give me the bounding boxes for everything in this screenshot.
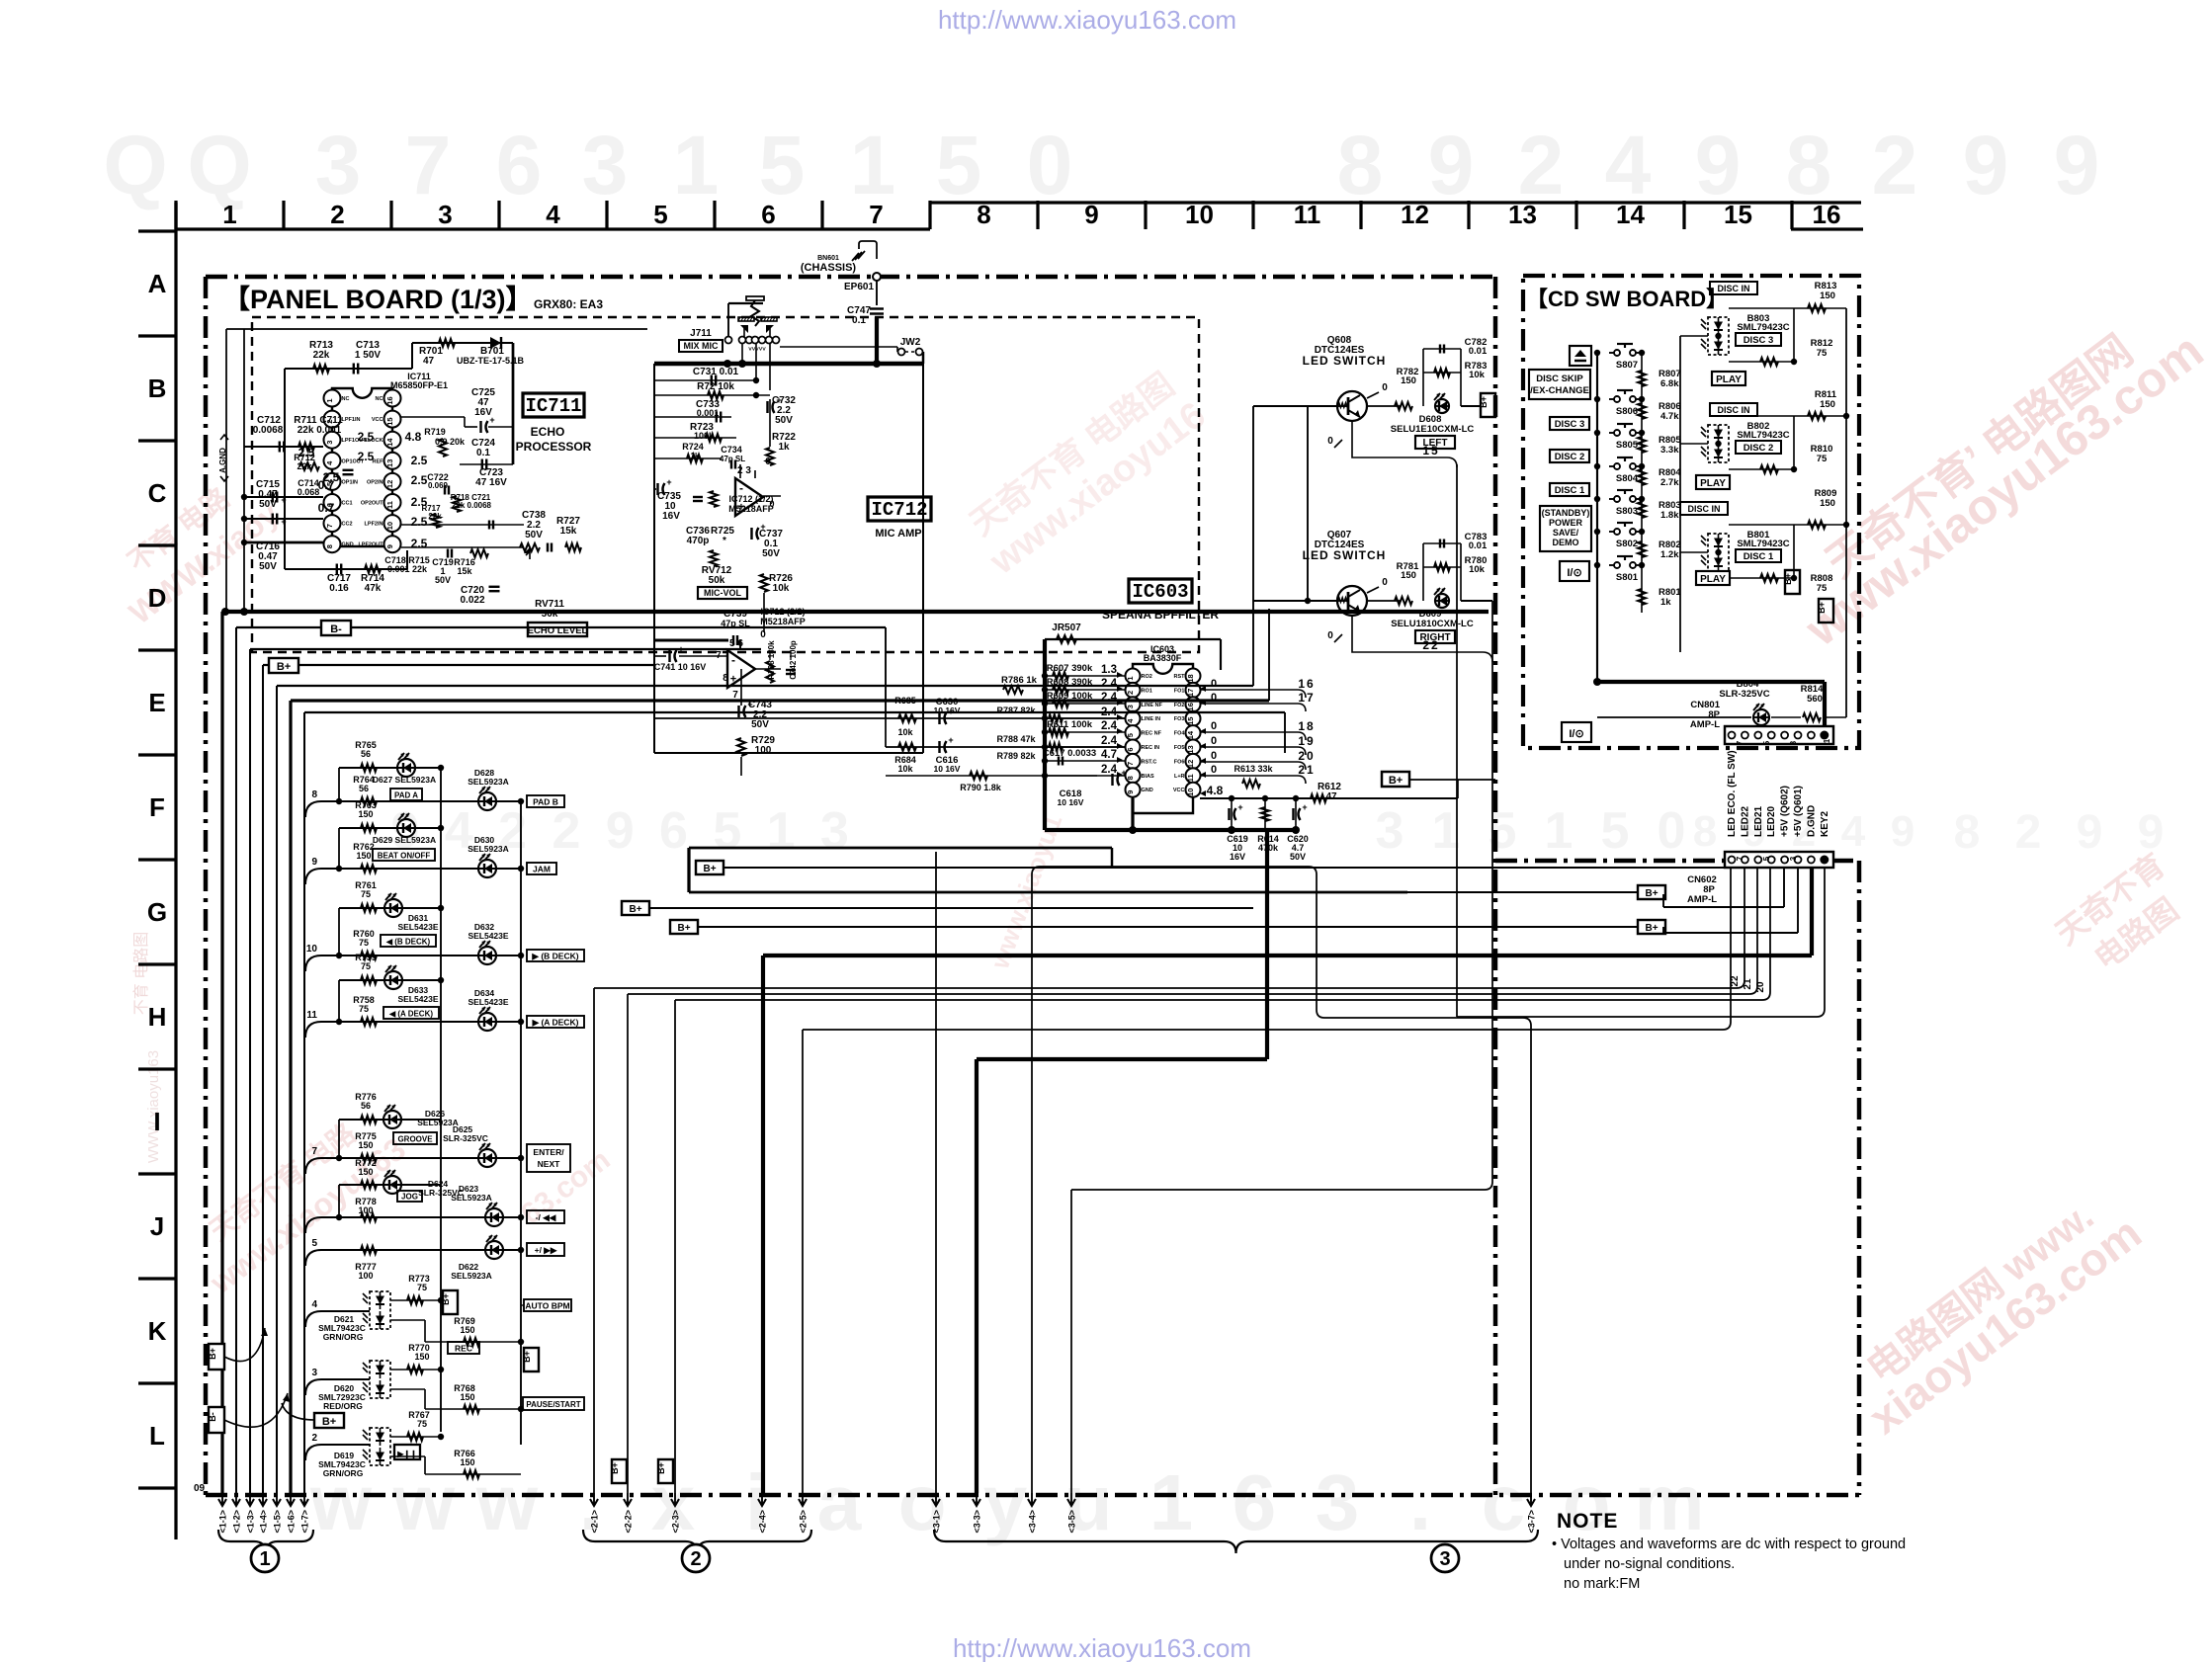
- svg-text:470p: 470p: [687, 536, 710, 546]
- svg-text:S801: S801: [1616, 572, 1639, 583]
- svg-text:2.5: 2.5: [358, 430, 375, 444]
- svg-text:+5V (Q601): +5V (Q601): [1793, 786, 1804, 837]
- svg-text:22: 22: [1422, 638, 1439, 652]
- svg-text:I/⊙: I/⊙: [1567, 567, 1581, 579]
- svg-text:63.com: 63.com: [515, 1143, 616, 1231]
- svg-text:0: 0: [1211, 764, 1217, 776]
- svg-text:150: 150: [460, 1325, 474, 1335]
- svg-text:0: 0: [1027, 119, 1073, 211]
- svg-text:B+: B+: [1645, 923, 1658, 934]
- svg-text:20: 20: [1755, 981, 1766, 993]
- svg-text:150: 150: [1820, 291, 1835, 301]
- svg-text:0: 0: [1327, 436, 1333, 447]
- svg-text:3: 3: [438, 200, 452, 229]
- svg-text:+: +: [948, 735, 953, 745]
- svg-text:150: 150: [460, 1392, 474, 1402]
- svg-text:SLR-325VC: SLR-325VC: [443, 1133, 488, 1143]
- svg-text:3: 3: [1789, 856, 1798, 861]
- svg-text:+/ ▶▶: +/ ▶▶: [535, 1245, 558, 1255]
- svg-text:FO5: FO5: [1174, 745, 1185, 751]
- svg-text:OP2OUT: OP2OUT: [361, 501, 383, 507]
- svg-text:SEL5923A: SEL5923A: [468, 777, 509, 787]
- svg-text:<1-2>: <1-2>: [232, 1510, 242, 1534]
- svg-text:19: 19: [1298, 734, 1315, 748]
- svg-text:0.001 22k: 0.001 22k: [387, 564, 428, 574]
- svg-text:18: 18: [1298, 719, 1315, 733]
- svg-text:56: 56: [359, 784, 369, 793]
- svg-text:75: 75: [361, 889, 371, 899]
- svg-text:15: 15: [385, 417, 394, 425]
- svg-text:0.16: 0.16: [329, 583, 349, 594]
- svg-text:17: 17: [1298, 691, 1315, 705]
- svg-text:2: 2: [552, 802, 580, 860]
- svg-text:0: 0: [1211, 678, 1217, 690]
- svg-text:IC712 (1/2): IC712 (1/2): [728, 494, 773, 504]
- svg-text:0: 0: [765, 457, 771, 467]
- svg-text:4.7k: 4.7k: [1660, 411, 1679, 422]
- svg-text:SLR-325VC: SLR-325VC: [1719, 689, 1769, 700]
- svg-text:LED SWITCH: LED SWITCH: [1303, 548, 1387, 562]
- svg-text:4: 4: [1605, 119, 1652, 211]
- svg-text:6: 6: [1126, 747, 1135, 751]
- svg-text:C731 0.01: C731 0.01: [693, 367, 739, 377]
- svg-text:5: 5: [1762, 856, 1771, 861]
- svg-text:RST.C: RST.C: [1142, 759, 1157, 765]
- svg-text:10: 10: [306, 944, 318, 955]
- svg-text:4: 4: [1841, 807, 1866, 856]
- svg-text:K: K: [148, 1316, 167, 1346]
- svg-text:560: 560: [1807, 694, 1823, 705]
- svg-text:<2-1>: <2-1>: [590, 1510, 600, 1534]
- svg-text:3: 3: [325, 441, 334, 445]
- svg-text:1: 1: [767, 802, 796, 860]
- svg-text:MIC-VOL: MIC-VOL: [704, 588, 741, 598]
- svg-text:under no-signal conditions.: under no-signal conditions.: [1564, 1556, 1735, 1572]
- svg-text:I/⊙: I/⊙: [1569, 728, 1583, 740]
- svg-text:D: D: [148, 583, 167, 613]
- svg-text:2.5: 2.5: [358, 450, 375, 463]
- svg-text:2.5: 2.5: [323, 470, 340, 484]
- svg-text:(CHASSIS): (CHASSIS): [801, 262, 857, 274]
- svg-text:22k 0.001: 22k 0.001: [298, 425, 342, 436]
- svg-text:12: 12: [1186, 760, 1195, 768]
- svg-text:0: 0: [1211, 720, 1217, 732]
- svg-text:LINE IN: LINE IN: [1142, 716, 1161, 722]
- svg-text:R787 82k: R787 82k: [996, 706, 1036, 715]
- svg-text:9: 9: [2077, 806, 2103, 859]
- svg-text:0.1: 0.1: [476, 448, 490, 458]
- svg-text:1.8k: 1.8k: [1660, 510, 1679, 521]
- svg-text:GRN/ORG: GRN/ORG: [323, 1332, 364, 1342]
- svg-text:<3-4>: <3-4>: [1028, 1510, 1038, 1534]
- svg-text:9: 9: [385, 544, 394, 548]
- svg-text:C734: C734: [721, 445, 742, 455]
- svg-text:RED/ORG: RED/ORG: [323, 1401, 363, 1411]
- svg-text:▶❙❙: ▶❙❙: [396, 1450, 417, 1459]
- svg-text:LED SWITCH: LED SWITCH: [1303, 354, 1387, 368]
- svg-text:LINE NF: LINE NF: [1142, 703, 1163, 708]
- svg-text:KEY2: KEY2: [1820, 810, 1830, 837]
- svg-text:10: 10: [1185, 200, 1214, 229]
- svg-text:A: A: [148, 269, 167, 298]
- svg-text:M65850FP-E1: M65850FP-E1: [390, 380, 448, 390]
- svg-text:1: 1: [673, 119, 720, 211]
- svg-text:3: 3: [1789, 740, 1798, 745]
- svg-text:13: 13: [1186, 745, 1195, 753]
- svg-text:3.3k: 3.3k: [1660, 445, 1679, 456]
- svg-text:L+R: L+R: [1174, 774, 1185, 780]
- svg-text:NC: NC: [342, 396, 350, 402]
- svg-text:47k: 47k: [365, 583, 382, 594]
- svg-text:B+: B+: [610, 1462, 620, 1474]
- svg-text:100k: 100k: [694, 431, 715, 441]
- svg-text:75: 75: [417, 1283, 427, 1292]
- svg-text:8: 8: [1693, 807, 1717, 856]
- svg-text:75: 75: [1817, 454, 1828, 464]
- svg-text:5: 5: [759, 119, 806, 211]
- svg-text:9: 9: [606, 802, 635, 860]
- svg-text:100: 100: [755, 745, 772, 756]
- svg-text:BN601: BN601: [817, 255, 839, 262]
- svg-text:5 6: 5 6: [729, 638, 743, 649]
- svg-text:1: 1: [259, 1548, 270, 1570]
- svg-text:m: m: [1634, 1458, 1704, 1546]
- svg-text:5: 5: [1762, 740, 1771, 745]
- svg-text:2: 2: [330, 200, 344, 229]
- svg-text:3: 3: [311, 1368, 317, 1378]
- svg-text:http://www.xiaoyu163.com: http://www.xiaoyu163.com: [938, 5, 1236, 35]
- svg-text:AMP-L: AMP-L: [1690, 719, 1720, 730]
- svg-text:0.01: 0.01: [1469, 540, 1488, 551]
- svg-text:21: 21: [1743, 978, 1753, 990]
- svg-text:8: 8: [1337, 119, 1384, 211]
- svg-text:y: y: [983, 1458, 1028, 1546]
- svg-text:R724: R724: [682, 442, 704, 452]
- svg-text:18: 18: [1186, 674, 1195, 682]
- svg-text:JAM: JAM: [533, 865, 551, 874]
- svg-text:R790 1.8k: R790 1.8k: [960, 783, 1002, 792]
- svg-text:0.069: 0.069: [428, 481, 449, 490]
- svg-text:150: 150: [358, 1140, 373, 1150]
- svg-text:2.7k: 2.7k: [1660, 477, 1679, 488]
- svg-text:22k 0.0068: 22k 0.0068: [452, 501, 492, 510]
- svg-text:7: 7: [869, 200, 883, 229]
- svg-text:REC: REC: [455, 1344, 472, 1354]
- svg-text:-: -: [731, 653, 735, 667]
- svg-text:<3-3>: <3-3>: [973, 1510, 982, 1534]
- svg-text:2.4: 2.4: [1101, 735, 1118, 747]
- svg-text:3: 3: [1376, 802, 1404, 860]
- svg-text:˅˅˅˅˅: ˅˅˅˅˅: [748, 347, 766, 353]
- svg-text:10k: 10k: [897, 727, 913, 737]
- svg-text:B: B: [148, 374, 167, 403]
- svg-text:2: 2: [311, 1433, 317, 1444]
- svg-text:FO2: FO2: [1174, 703, 1185, 708]
- svg-text:OP1IN: OP1IN: [342, 479, 359, 485]
- svg-text:AMP-L: AMP-L: [1687, 894, 1717, 905]
- svg-text:0: 0: [1327, 630, 1333, 641]
- svg-text:0: 0: [1382, 577, 1388, 588]
- svg-text:NC: NC: [376, 396, 383, 402]
- svg-text:-: -: [739, 481, 743, 495]
- svg-text:DISC 3: DISC 3: [1555, 419, 1585, 430]
- svg-text:5: 5: [1126, 733, 1135, 737]
- svg-text:1: 1: [1821, 856, 1829, 861]
- svg-text:JW2: JW2: [900, 337, 921, 348]
- svg-text:B+: B+: [277, 661, 291, 673]
- svg-text:◀ (A DECK): ◀ (A DECK): [388, 1010, 433, 1019]
- svg-text:B+: B+: [1479, 396, 1489, 408]
- svg-text:D629 SEL5923A: D629 SEL5923A: [373, 835, 436, 845]
- svg-text:14: 14: [385, 438, 394, 447]
- svg-text:PROCESSOR: PROCESSOR: [516, 440, 592, 454]
- svg-text:75: 75: [361, 961, 371, 971]
- svg-text:JR507: JR507: [1052, 623, 1081, 633]
- svg-text:B+: B+: [208, 1348, 217, 1360]
- svg-text:1k: 1k: [691, 452, 700, 460]
- svg-text:LED ECO. (FL SW): LED ECO. (FL SW): [1727, 750, 1738, 837]
- svg-text:SML79423C: SML79423C: [1737, 430, 1789, 441]
- svg-text:10k: 10k: [897, 764, 913, 774]
- svg-text:21: 21: [1298, 763, 1315, 777]
- svg-text:/EX-CHANGE: /EX-CHANGE: [1530, 385, 1589, 396]
- svg-text:S806: S806: [1616, 406, 1638, 417]
- svg-text:DISC 2: DISC 2: [1744, 443, 1774, 454]
- svg-text:o: o: [1563, 1458, 1611, 1546]
- svg-text:3: 3: [1316, 1458, 1360, 1546]
- svg-text:SEL5923A: SEL5923A: [451, 1271, 492, 1281]
- svg-text:SEL5923A: SEL5923A: [468, 844, 509, 854]
- svg-text:B+: B+: [677, 923, 690, 934]
- svg-text:3: 3: [1439, 1548, 1450, 1570]
- svg-text:IC712: IC712: [871, 499, 927, 521]
- svg-text:50V: 50V: [259, 499, 277, 510]
- svg-text:2.5: 2.5: [298, 446, 315, 459]
- svg-text:0: 0: [1658, 802, 1686, 860]
- svg-text:C: C: [148, 478, 167, 508]
- svg-text:50V: 50V: [435, 575, 451, 585]
- svg-text:SELU1E10CXM-LC: SELU1E10CXM-LC: [1391, 424, 1475, 435]
- svg-text:10k: 10k: [1469, 370, 1486, 380]
- svg-text:SEL5423E: SEL5423E: [397, 994, 438, 1004]
- svg-text:R788 47k: R788 47k: [996, 734, 1036, 744]
- svg-text:Q: Q: [103, 119, 167, 211]
- svg-text:9: 9: [1126, 790, 1135, 794]
- svg-text:15k: 15k: [457, 566, 472, 576]
- svg-text:SEL5423E: SEL5423E: [397, 922, 438, 932]
- svg-text:2: 2: [690, 1548, 701, 1570]
- svg-text:0.001: 0.001: [697, 408, 720, 418]
- svg-text:6: 6: [761, 200, 775, 229]
- svg-text:.: .: [1409, 1458, 1431, 1546]
- svg-text:R613 33k: R613 33k: [1234, 764, 1273, 774]
- svg-text:2: 2: [1518, 119, 1565, 211]
- svg-text:+: +: [1237, 802, 1242, 812]
- svg-text:11: 11: [1186, 774, 1195, 782]
- svg-text:8: 8: [1126, 776, 1135, 780]
- svg-text:50k: 50k: [709, 575, 725, 586]
- svg-text:100: 100: [358, 1271, 373, 1281]
- svg-text:6: 6: [496, 119, 543, 211]
- svg-text:SML79423C: SML79423C: [1737, 539, 1789, 549]
- svg-text:22k: 22k: [428, 512, 442, 521]
- svg-text:7: 7: [1126, 762, 1135, 766]
- svg-text:5: 5: [653, 200, 667, 229]
- svg-text:SEL5423E: SEL5423E: [468, 997, 508, 1007]
- svg-text:SAVE/: SAVE/: [1553, 528, 1579, 538]
- svg-text:B+: B+: [1389, 775, 1403, 787]
- svg-text:C741 10 16V: C741 10 16V: [654, 662, 707, 672]
- svg-text:M5218AFP: M5218AFP: [728, 504, 774, 514]
- svg-text:+: +: [1302, 802, 1307, 812]
- svg-text:B+: B+: [322, 1416, 336, 1428]
- svg-text:DISC 1: DISC 1: [1555, 485, 1585, 496]
- svg-text:FO4: FO4: [1174, 731, 1186, 737]
- svg-text:DISC 1: DISC 1: [1744, 551, 1774, 562]
- svg-text:2.5: 2.5: [411, 537, 428, 550]
- svg-text:50V: 50V: [762, 548, 780, 559]
- svg-text:10 16V: 10 16V: [934, 706, 961, 715]
- svg-text:RST: RST: [1174, 674, 1186, 680]
- svg-text:+: +: [281, 495, 286, 505]
- svg-text:S805: S805: [1616, 440, 1639, 451]
- svg-text:4.7: 4.7: [1101, 749, 1117, 761]
- svg-text:0.1: 0.1: [852, 315, 866, 326]
- svg-text:15k: 15k: [560, 526, 577, 537]
- svg-text:<1-4>: <1-4>: [259, 1510, 269, 1534]
- svg-text:B-: B-: [330, 623, 342, 635]
- svg-text:B+: B+: [522, 1351, 532, 1363]
- svg-text:2: 2: [1126, 691, 1135, 695]
- svg-text:DISC IN: DISC IN: [1717, 284, 1749, 293]
- svg-text:47p SL: 47p SL: [720, 455, 745, 463]
- svg-text:13: 13: [385, 459, 394, 467]
- svg-text:a: a: [817, 1458, 862, 1546]
- svg-text:50V: 50V: [775, 415, 793, 426]
- svg-text:ENTER/: ENTER/: [533, 1147, 564, 1157]
- svg-text:SEL5923A: SEL5923A: [451, 1193, 492, 1203]
- svg-text:2.4: 2.4: [1101, 764, 1118, 776]
- svg-text:14: 14: [1616, 200, 1645, 229]
- svg-text:VCC: VCC: [1173, 788, 1185, 793]
- svg-text:NEXT: NEXT: [538, 1159, 560, 1169]
- svg-text:c: c: [1482, 1458, 1526, 1546]
- svg-text:DISC SKIP: DISC SKIP: [1536, 374, 1583, 384]
- svg-text:FO6: FO6: [1174, 759, 1185, 765]
- svg-text:Q: Q: [187, 119, 251, 211]
- svg-text:0: 0: [1211, 735, 1217, 747]
- svg-text:B-: B-: [208, 1412, 217, 1422]
- svg-text:1: 1: [1823, 738, 1831, 743]
- svg-text:+: +: [1121, 768, 1126, 778]
- svg-text:15: 15: [1724, 200, 1752, 229]
- svg-text:5: 5: [713, 802, 741, 860]
- svg-text:15: 15: [1422, 444, 1439, 457]
- svg-text:GND: GND: [1142, 788, 1153, 793]
- svg-text:【PANEL BOARD (1/3)】: 【PANEL BOARD (1/3)】: [223, 285, 533, 314]
- svg-text:1: 1: [1126, 676, 1135, 680]
- svg-text:SML79423C: SML79423C: [1737, 322, 1789, 333]
- svg-text:no mark:FM: no mark:FM: [1564, 1576, 1640, 1592]
- svg-text:8: 8: [723, 673, 728, 684]
- svg-text:PAD A: PAD A: [394, 791, 418, 800]
- svg-text:<2-4>: <2-4>: [758, 1510, 768, 1534]
- svg-text:B+: B+: [1817, 602, 1827, 614]
- svg-text:4.8: 4.8: [1207, 784, 1224, 797]
- svg-text:3: 3: [1126, 705, 1135, 708]
- svg-text:56: 56: [361, 1101, 371, 1111]
- svg-text:R786 1k: R786 1k: [1001, 675, 1038, 686]
- svg-text:PLAY: PLAY: [1700, 574, 1726, 585]
- svg-text:150: 150: [358, 809, 373, 819]
- svg-text:B+: B+: [441, 1293, 451, 1305]
- svg-text:150: 150: [1401, 570, 1416, 581]
- svg-text:4: 4: [311, 1299, 317, 1310]
- svg-text:75: 75: [1817, 583, 1828, 594]
- svg-text:-/ ◀◀: -/ ◀◀: [536, 1212, 557, 1222]
- svg-text:2.4: 2.4: [1101, 678, 1118, 690]
- svg-text:0.0068: 0.0068: [253, 425, 284, 436]
- svg-text:75: 75: [417, 1419, 427, 1429]
- svg-text:LPF2OUT: LPF2OUT: [358, 542, 383, 548]
- svg-text:7: 7: [1736, 740, 1744, 745]
- svg-text:MIX MIC: MIX MIC: [684, 341, 719, 351]
- svg-text:16: 16: [1186, 703, 1195, 710]
- svg-text:DISC IN: DISC IN: [1717, 405, 1749, 415]
- svg-text:12: 12: [385, 480, 394, 488]
- svg-text:B+: B+: [703, 864, 716, 874]
- svg-text:CC2: CC2: [342, 522, 353, 528]
- svg-text:<3-5>: <3-5>: [1067, 1510, 1077, 1534]
- svg-text:▶ (B DECK): ▶ (B DECK): [531, 952, 578, 961]
- svg-text:3: 3: [582, 119, 629, 211]
- svg-text:50V: 50V: [751, 719, 769, 730]
- svg-text:F: F: [149, 792, 165, 822]
- svg-text:B+: B+: [1645, 888, 1658, 899]
- svg-text:www.xiaoyu163.com: www.xiaoyu163.com: [1795, 322, 2212, 657]
- svg-text:2.5: 2.5: [411, 515, 428, 529]
- svg-text:LED21: LED21: [1753, 805, 1764, 837]
- svg-text:12: 12: [1401, 200, 1429, 229]
- svg-text:AUTO BPM: AUTO BPM: [525, 1301, 569, 1311]
- svg-text:6.8k: 6.8k: [1660, 378, 1679, 389]
- svg-text:SEL5423E: SEL5423E: [468, 931, 508, 941]
- svg-text:GND: GND: [342, 542, 354, 548]
- svg-text:(STANDBY): (STANDBY): [1542, 508, 1590, 518]
- svg-text:7: 7: [1736, 856, 1744, 861]
- svg-text:14: 14: [1186, 730, 1195, 739]
- svg-text:NOTE: NOTE: [1557, 1510, 1618, 1533]
- svg-text:0: 0: [760, 629, 766, 640]
- svg-text:R719: R719: [424, 427, 446, 437]
- svg-text:1: 1: [325, 398, 334, 402]
- svg-text:• Voltages and waveforms are d: • Voltages and waveforms are dc with res…: [1552, 1537, 1906, 1552]
- svg-text:9: 9: [1891, 807, 1914, 856]
- svg-text:S802: S802: [1616, 539, 1638, 549]
- svg-text:▶ (A DECK): ▶ (A DECK): [532, 1018, 579, 1028]
- svg-text:15: 15: [1186, 717, 1195, 725]
- svg-text:w: w: [475, 1458, 539, 1546]
- svg-text:22k: 22k: [313, 350, 330, 361]
- svg-text:w: w: [392, 1458, 456, 1546]
- svg-text:PAD B: PAD B: [533, 797, 558, 807]
- svg-text:16V: 16V: [1230, 852, 1245, 862]
- svg-text:R728 180k: R728 180k: [767, 640, 776, 680]
- svg-text:75: 75: [1817, 348, 1828, 359]
- svg-text:0.068: 0.068: [298, 487, 320, 497]
- svg-text:1: 1: [850, 119, 896, 211]
- svg-text:LED20: LED20: [1766, 805, 1777, 837]
